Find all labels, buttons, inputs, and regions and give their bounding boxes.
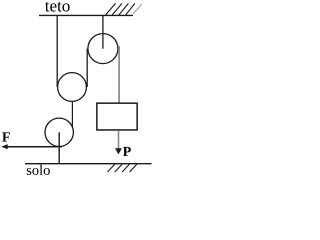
wire: axle support from bottom pulley center to ground: [58, 132, 60, 164]
ceiling hatch 5 (faint): [133, 4, 142, 14]
pulley top: [88, 34, 118, 64]
label F: [2, 132, 10, 141]
wire: hanger from ceiling into top pulley axle: [102, 15, 104, 49]
pulley middle: [58, 73, 87, 102]
label P: [123, 147, 131, 156]
label "solo" (ground): [27, 165, 50, 175]
ceiling hatch 3: [119, 3, 128, 15]
wire: rope between top pulley left and middle pulley right: [86, 49, 88, 87]
ground line: [25, 163, 152, 165]
ground hatch 4: [130, 164, 137, 172]
ground hatch 3: [122, 164, 129, 172]
ground hatch 1: [108, 164, 116, 172]
pulley bottom: [45, 118, 73, 146]
force arrow F shaft: [7, 146, 63, 148]
block (weight): [97, 103, 137, 130]
label "teto" (ceiling): [45, 2, 70, 12]
ceiling line: [39, 14, 133, 16]
wire: left rope from ceiling to middle pulley left tangent: [56, 15, 58, 87]
ceiling hatch 1: [106, 3, 116, 15]
ground hatch 2: [115, 164, 122, 172]
weight arrow P shaft (gray rope below block): [118, 131, 120, 149]
ceiling hatch 4: [126, 3, 135, 15]
wire: rope from middle pulley bottom to bottom pulley right side: [71, 102, 73, 127]
ceiling hatch 2: [112, 3, 122, 15]
force arrow F head: [1, 144, 7, 149]
wire: gray rope from top pulley right down to block: [118, 46, 120, 103]
weight arrow P head: [115, 148, 122, 154]
